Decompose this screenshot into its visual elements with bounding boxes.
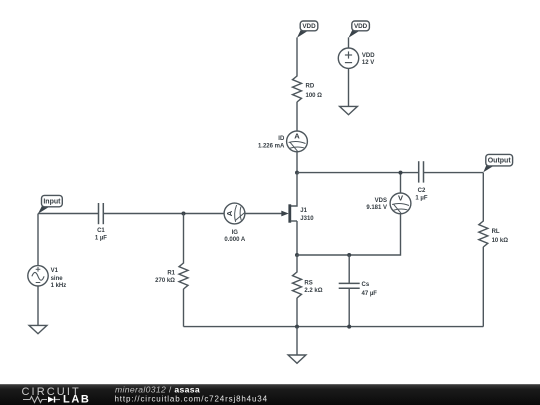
svg-text:IG: IG <box>232 230 239 236</box>
svg-text:12 V: 12 V <box>362 60 374 66</box>
svg-text:1 µF: 1 µF <box>95 236 107 242</box>
svg-text:Cs: Cs <box>362 282 370 288</box>
wire RD to ID meter <box>296 102 298 132</box>
svg-text:http://circuitlab.com/c724rsj8: http://circuitlab.com/c724rsj8h4u34 <box>115 395 268 404</box>
net flag Input <box>38 204 51 214</box>
ground (VDD source) <box>340 106 358 114</box>
logo CIRCUIT LAB <box>22 386 91 405</box>
wire output corner down to RL <box>482 173 484 222</box>
wire Cs bottom to rail <box>348 288 350 326</box>
net flag Output <box>483 163 495 173</box>
wire C1 to IG meter <box>103 213 224 215</box>
svg-text:1 kHz: 1 kHz <box>51 283 67 289</box>
node VDS tap <box>399 171 403 175</box>
svg-text:2.2 kΩ: 2.2 kΩ <box>304 288 322 294</box>
node source junction <box>295 253 299 257</box>
ammeter IG (rotated) <box>224 203 246 243</box>
source V1 sine <box>28 266 66 290</box>
svg-text:J310: J310 <box>300 216 314 222</box>
node drain junction <box>295 171 299 175</box>
svg-text:VDD: VDD <box>362 53 375 59</box>
wire source row to VDS bottom corner <box>297 214 401 255</box>
wire R1 top <box>183 214 185 264</box>
wire ground stem <box>296 327 298 355</box>
wire V1 top <box>37 214 39 266</box>
node R1 tap <box>182 212 186 216</box>
voltmeter VDS <box>366 193 411 214</box>
svg-text:270 kΩ: 270 kΩ <box>155 278 175 284</box>
capacitor C2 <box>415 161 427 201</box>
resistor RD <box>293 76 323 102</box>
wire VDD flag to RD <box>296 37 298 76</box>
svg-text:47 µF: 47 µF <box>362 291 378 297</box>
wire ID meter to drain node <box>296 152 298 173</box>
resistor RL <box>479 221 508 247</box>
svg-text:VDD: VDD <box>354 23 368 30</box>
wire RL to ground rail <box>482 247 484 327</box>
footer bar <box>0 384 540 405</box>
svg-text:sine: sine <box>51 276 64 282</box>
node Cs rail junction <box>347 325 351 329</box>
svg-text:mineral0312 / asasa: mineral0312 / asasa <box>115 384 200 394</box>
svg-text:1.226 mA: 1.226 mA <box>258 143 285 149</box>
node Cs tap on source row <box>347 253 351 257</box>
ground (main) <box>288 355 306 363</box>
transistor J1 J310 (n-JFET) <box>281 204 314 222</box>
svg-text:VDD: VDD <box>302 23 316 30</box>
wire RS bottom to rail <box>296 298 298 327</box>
svg-text:J1: J1 <box>300 208 307 214</box>
svg-text:RL: RL <box>492 229 500 235</box>
svg-text:C2: C2 <box>418 188 426 194</box>
svg-text:V1: V1 <box>51 268 59 274</box>
svg-text:Output: Output <box>488 158 512 165</box>
wire input to C1 <box>38 213 99 215</box>
wire drain node down to J1 drain <box>290 173 297 206</box>
svg-text:RS: RS <box>304 280 312 286</box>
resistor RS <box>293 272 323 298</box>
wire R1 bottom to rail <box>183 289 185 327</box>
svg-text:A: A <box>294 132 300 141</box>
svg-text:RD: RD <box>306 84 315 90</box>
wire RS top <box>296 255 298 273</box>
wire VDS top to drain wire <box>400 173 402 194</box>
wire IG to J1 gate with arrow <box>245 211 289 217</box>
wire Cs top <box>348 255 350 283</box>
svg-text:Input: Input <box>43 199 61 206</box>
wire drain node to C2 <box>297 172 419 174</box>
wire C2 to output corner <box>424 172 484 174</box>
ammeter ID <box>258 131 307 152</box>
capacitor Cs <box>339 282 378 297</box>
svg-text:0.000 A: 0.000 A <box>224 237 245 243</box>
wire VDD source to ground <box>348 68 350 106</box>
net flag VDD (source) <box>349 28 361 38</box>
svg-text:R1: R1 <box>167 270 175 276</box>
svg-text:LAB: LAB <box>63 393 90 405</box>
svg-text:100 Ω: 100 Ω <box>306 93 323 99</box>
net flag VDD (drain rail) <box>297 28 309 38</box>
wire J1 source down to source node <box>296 221 298 255</box>
svg-text:ID: ID <box>278 136 285 142</box>
wire V1 bottom <box>37 286 39 325</box>
ground (V1) <box>29 325 47 333</box>
footer credit text <box>115 384 268 403</box>
resistor R1 <box>155 263 188 289</box>
svg-text:10 kΩ: 10 kΩ <box>492 238 509 244</box>
svg-text:9.181 V: 9.181 V <box>366 205 387 211</box>
svg-text:A: A <box>225 210 234 216</box>
svg-text:C1: C1 <box>97 228 105 234</box>
svg-text:VDS: VDS <box>375 198 387 204</box>
svg-text:1 µF: 1 µF <box>415 196 427 202</box>
wire bottom rail <box>184 326 484 328</box>
wire VDD flag to source <box>348 37 350 48</box>
node RS rail junction <box>295 325 299 329</box>
capacitor C1 <box>95 203 107 242</box>
source VDD 12V <box>338 48 375 68</box>
